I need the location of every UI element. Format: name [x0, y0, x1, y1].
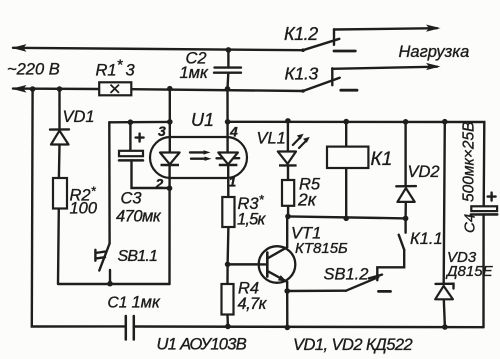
svg-text:500мк×25В: 500мк×25В [461, 122, 478, 202]
svg-text:С3: С3 [121, 190, 143, 208]
svg-text:2к: 2к [297, 190, 317, 210]
svg-text:4: 4 [229, 124, 238, 140]
svg-text:К1: К1 [371, 149, 393, 170]
svg-text:470мк: 470мк [116, 208, 162, 226]
svg-text:С4: С4 [462, 214, 479, 233]
svg-text:1,5к: 1,5к [237, 211, 267, 229]
svg-text:VL1: VL1 [257, 130, 286, 148]
svg-text:К1.2: К1.2 [284, 24, 318, 44]
svg-text:4,7к: 4,7к [238, 295, 268, 313]
svg-text:3: 3 [158, 123, 166, 139]
svg-text:VD1: VD1 [63, 108, 95, 126]
svg-text:С1: С1 [108, 295, 128, 312]
svg-text:К1.1: К1.1 [410, 230, 443, 248]
svg-text:U1: U1 [191, 110, 214, 130]
svg-text:U1 АОУ103В: U1 АОУ103В [157, 336, 247, 354]
svg-text:1: 1 [229, 174, 237, 190]
svg-text:1мк: 1мк [132, 294, 161, 312]
svg-text:~220 В: ~220 В [7, 61, 60, 79]
svg-text:Д815Е: Д815Е [445, 263, 494, 280]
svg-text:Нагрузка: Нагрузка [399, 43, 470, 61]
svg-text:100: 100 [70, 200, 98, 218]
svg-text:VD1, VD2 КД522: VD1, VD2 КД522 [293, 336, 412, 354]
svg-text:КТ815Б: КТ815Б [295, 240, 348, 257]
svg-text:2: 2 [155, 176, 164, 192]
svg-text:VD2: VD2 [408, 163, 440, 181]
svg-text:SB1.1: SB1.1 [118, 248, 158, 265]
svg-text:SB1.2: SB1.2 [324, 266, 369, 284]
svg-text:1мк: 1мк [180, 64, 209, 82]
svg-text:К1.3: К1.3 [285, 64, 319, 84]
